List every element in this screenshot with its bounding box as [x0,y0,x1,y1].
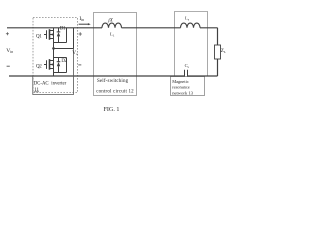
svg-text:control circuit 12: control circuit 12 [96,89,134,94]
svg-text:ZL: ZL [221,48,226,54]
wire mid node to output [54,28,74,49]
wire load to bottom rail [188,59,218,76]
svg-text:L1: L1 [110,31,115,37]
svg-text:FIG. 1: FIG. 1 [104,107,120,113]
magnetic resonance network box [175,12,208,77]
inductor L1 [102,23,122,28]
label - (Vo) [78,64,81,66]
wire Q1 parallel branch [54,28,67,43]
svg-text:DC-AC: DC-AC [34,81,49,86]
capacitor Cs [185,70,188,77]
diode D1 [57,28,61,43]
wire bottom rail [9,75,185,77]
label - (input) [7,65,10,67]
svg-text:Q2: Q2 [36,64,42,69]
diode D2 [57,58,61,73]
svg-text:inverter: inverter [51,81,66,86]
label + (Vo) [79,32,82,35]
inverter label box [33,49,74,95]
wire top rail mid [122,27,181,29]
wire Q2 parallel branch [54,58,67,73]
node midpoint [52,47,55,50]
svg-text:Magnetic: Magnetic [172,79,189,84]
inverter dashed box [33,18,78,93]
wire top rail [7,27,102,29]
svg-text:jX: jX [107,17,113,23]
label + (input) [6,32,9,35]
svg-text:Vo: Vo [72,50,78,56]
load ZL [215,45,221,59]
svg-text:D2: D2 [61,59,67,64]
svg-text:Ls: Ls [185,16,190,22]
svg-text:Q1: Q1 [36,35,42,40]
transistor Q2 [44,56,67,76]
magnetic resonance label box [171,77,205,96]
svg-text:resonance: resonance [172,85,190,90]
svg-text:Cs: Cs [185,63,190,69]
svg-text:Self-switching: Self-switching [97,79,129,84]
svg-text:Vin: Vin [6,48,13,54]
svg-text:network 13: network 13 [172,91,193,96]
svg-text:D1: D1 [60,27,66,32]
self-switching control circuit box [94,13,137,96]
transistor Q1 [44,28,54,56]
svg-text:Iin: Iin [79,16,84,22]
current arrow Iin [79,23,89,25]
wire to load [200,28,218,45]
inductor Ls [181,23,201,28]
